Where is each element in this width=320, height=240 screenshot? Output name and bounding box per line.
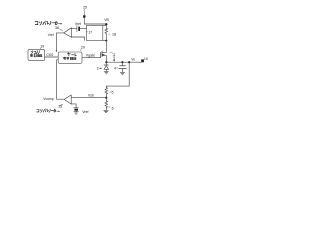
junction at R18 bottom: [105, 40, 107, 42]
ground under R6: [104, 110, 109, 112]
wire U36 -input stub to block 17 bottom: [71, 37, 84, 40]
output rail from Q1 drain: [106, 61, 141, 63]
svg-text:Vcomp: Vcomp: [43, 97, 54, 101]
arrowhead into gate control box: [56, 50, 58, 52]
feedback wire down and left to divider: [106, 62, 129, 86]
gate wire Vgate: [82, 57, 100, 59]
wire Vsb to comparator 35: [71, 96, 106, 98]
svg-text:6: 6: [112, 106, 114, 110]
wire U35 -input to battery Vref bottom: [71, 104, 76, 108]
svg-text:CK0: CK0: [46, 53, 53, 57]
junction node switch: [105, 61, 107, 63]
capacitor C4: [121, 61, 123, 63]
node Vsb junction: [105, 97, 107, 99]
comparator U35 (apex left): [64, 95, 71, 104]
svg-text:18: 18: [112, 32, 116, 36]
comparator U36 label text コンパレータ with arrow: [35, 21, 62, 25]
ground under C4: [120, 72, 124, 74]
wire R18 to transistor source: [105, 34, 107, 52]
text 発生回路: [30, 54, 42, 57]
wire CK0 clock to gate control: [45, 56, 59, 58]
block 17: [87, 25, 103, 40]
svg-text:Vref: Vref: [82, 110, 88, 114]
clock generator block 19: [28, 49, 45, 60]
ground under battery: [74, 112, 78, 114]
svg-text:17: 17: [88, 31, 92, 35]
svg-text:2: 2: [97, 67, 99, 71]
svg-text:36: 36: [55, 26, 59, 30]
wire U36 output to gate control block: [56, 33, 63, 51]
battery Vref (top): [76, 25, 78, 31]
comparator U35 label text コンパレータ with arrow (scaled reuse): [37, 109, 61, 112]
resistor R6: [105, 98, 108, 110]
block 17 connections to R18 column: [103, 25, 107, 40]
svg-text:Vsb: Vsb: [88, 94, 94, 98]
wire Vcomp from comparator 35 up to gate control: [57, 60, 64, 99]
comparator U36 (apex left): [64, 28, 72, 37]
wire battery to block 17: [80, 27, 87, 29]
resistor R18: [105, 26, 108, 35]
svg-text:Vref: Vref: [75, 22, 81, 26]
svg-text:Vref: Vref: [48, 33, 54, 37]
diode D2: [105, 62, 107, 64]
svg-text:Vo: Vo: [131, 57, 135, 61]
svg-text:Vgate: Vgate: [86, 53, 95, 57]
svg-text:5: 5: [112, 91, 114, 95]
resistor R5: [105, 86, 108, 98]
text 制御回路: [63, 57, 76, 60]
battery Vref (bottom): [74, 107, 79, 109]
ground under D2: [104, 71, 108, 73]
gate control block 20: [58, 52, 82, 63]
svg-text:20: 20: [81, 46, 85, 50]
text ゲート: [67, 53, 76, 56]
reference numeral 17: [86, 31, 88, 33]
feedback tap node: [128, 61, 130, 63]
svg-text:25: 25: [83, 6, 87, 10]
text クロック: [31, 51, 39, 54]
wire terminal 25 to VB node: [84, 18, 106, 24]
svg-text:10: 10: [144, 57, 148, 61]
wire U36 +input stub: [71, 27, 77, 29]
transistor Q1 (PMOS switch): [102, 51, 106, 53]
svg-text:4: 4: [114, 66, 116, 70]
svg-text:VB: VB: [104, 18, 109, 22]
svg-text:3: 3: [113, 55, 115, 59]
